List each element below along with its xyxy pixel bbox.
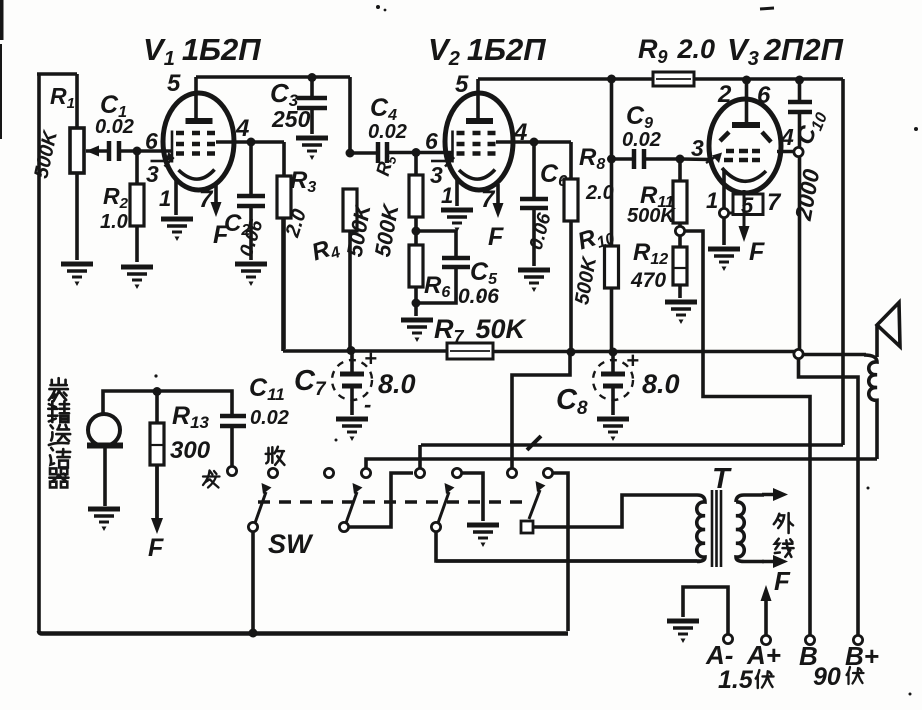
node R6 bottom — [412, 299, 421, 308]
svg-text:7: 7 — [481, 186, 496, 213]
node C8 bus — [609, 348, 618, 357]
switch SW pole1 — [248, 483, 271, 631]
contact transmit FA — [227, 466, 236, 475]
contact pole3 right — [452, 468, 461, 477]
wire V3 pin4 — [777, 150, 794, 154]
pin label 3 V1 — [146, 161, 159, 187]
ground under R1 — [61, 264, 93, 286]
svg-text:F: F — [749, 238, 765, 266]
svg-text:+: + — [364, 346, 377, 371]
wire coil to receive bus — [366, 459, 877, 469]
label T — [712, 463, 732, 495]
svg-text:0.02: 0.02 — [95, 116, 134, 138]
svg-text:300: 300 — [170, 437, 211, 464]
wire screen divider column — [610, 79, 614, 352]
tube V2 — [431, 79, 513, 190]
pin label 6 V1 — [145, 128, 158, 154]
contact V3 pin1 — [719, 208, 728, 217]
filament arrow A+ — [761, 585, 772, 636]
wire B+ top rail down — [841, 79, 845, 445]
label SW — [268, 529, 314, 559]
tube V3 — [706, 80, 781, 193]
node top R10 — [607, 75, 616, 84]
wire pole3 right to ground — [462, 473, 484, 521]
resistor R4 — [308, 189, 375, 350]
svg-text:F: F — [148, 534, 164, 562]
svg-text:250: 250 — [271, 106, 311, 132]
label external line — [774, 513, 794, 557]
ground V1 pin1 — [161, 219, 193, 241]
svg-text:8.0: 8.0 — [642, 369, 680, 399]
node R4 C7 — [347, 346, 356, 355]
contact pole2 right — [361, 468, 370, 477]
switch wiper tick on bus — [527, 436, 541, 450]
svg-text:1.0: 1.0 — [100, 211, 128, 233]
node R11 R12 contact — [675, 226, 684, 235]
node C4 input — [346, 149, 355, 158]
node C9 left — [607, 155, 616, 164]
svg-text:V11Б2П: V11Б2П — [143, 32, 261, 70]
tube V2 label — [428, 32, 546, 70]
node R8 bus — [567, 348, 576, 357]
wire V1 pin1 — [174, 180, 178, 215]
capacitor C3 — [270, 77, 327, 134]
pin label 5 V2 — [455, 71, 469, 98]
pin label 3 V2 — [430, 162, 443, 188]
svg-text:1: 1 — [706, 188, 718, 213]
resistor R13 — [150, 391, 211, 534]
wire V2 pin1 — [455, 179, 459, 206]
pin label 6 V3 — [757, 82, 771, 109]
bottom bus — [39, 631, 568, 634]
svg-text:0.02: 0.02 — [368, 121, 407, 143]
svg-text:6: 6 — [757, 82, 771, 109]
potentiometer R1 — [30, 74, 99, 631]
wire R9 to B+ rail — [694, 77, 843, 81]
svg-text:R750K: R750K — [434, 314, 528, 347]
node grid V2 — [412, 148, 421, 157]
wire bus to speaker coil — [803, 353, 866, 357]
pin label 6 V2 — [425, 128, 438, 154]
ground under C6 — [518, 270, 550, 292]
ground under C3 — [296, 138, 328, 160]
ground pole3 — [467, 525, 499, 547]
svg-text:2.0: 2.0 — [585, 182, 614, 204]
svg-text:5: 5 — [167, 70, 181, 97]
terminal A- — [705, 634, 733, 670]
pin label 4 V2 — [513, 119, 527, 146]
resistor R11 — [627, 159, 687, 227]
pin label 5 V1 — [167, 70, 181, 97]
switch pole3 — [431, 483, 700, 561]
ground under R2 — [121, 267, 153, 289]
label F V3 — [749, 238, 765, 266]
ground under C2 — [235, 264, 267, 286]
ground under microphone — [88, 509, 120, 531]
label carbon microphone — [48, 378, 70, 487]
svg-text:3: 3 — [691, 135, 704, 161]
contact pole2 left — [324, 468, 333, 477]
capacitor C6 — [520, 142, 567, 266]
contact pole3 left — [415, 468, 424, 477]
svg-text:F: F — [488, 223, 504, 251]
pin label 1 V3 — [706, 188, 718, 213]
node pole1 bottom bus — [249, 629, 258, 638]
contact V3 pin4 on C10 line — [794, 147, 803, 156]
pin label 1 V2 — [441, 183, 453, 208]
resistor R3 — [277, 142, 316, 349]
node V1 pin4 — [216, 138, 284, 147]
svg-text:T: T — [712, 463, 732, 495]
resistor R7 — [434, 314, 528, 359]
pin label 7 V1 — [199, 186, 214, 213]
resistor R9 — [653, 72, 694, 86]
contact receive pole1 — [268, 468, 277, 477]
ground V3 pin1 — [708, 249, 740, 271]
node V3 anode — [742, 76, 751, 85]
pin label 1 V1 — [159, 186, 171, 211]
resistor R6 — [409, 231, 450, 316]
wire pole4 right to bottom bus — [553, 473, 569, 631]
ground A- — [667, 621, 699, 643]
tube V1 — [151, 77, 235, 190]
svg-text:500K: 500K — [627, 205, 676, 227]
capacitor C8 electrolytic — [556, 348, 680, 419]
label 90V — [813, 663, 864, 691]
svg-text:+: + — [626, 348, 639, 373]
ground under R6 — [401, 320, 433, 342]
resistor R9 label — [638, 34, 715, 67]
capacitor C9 — [612, 102, 681, 169]
svg-text:6: 6 — [145, 128, 158, 154]
transformer T — [436, 488, 788, 568]
wire pin1 to ground — [722, 217, 726, 245]
capacitor C4 — [350, 94, 416, 163]
label F R13 — [148, 534, 164, 562]
wire A- terminal to ground — [683, 587, 728, 634]
label F A+ — [774, 566, 791, 596]
svg-text:V32П2П: V32П2П — [727, 32, 844, 70]
switch pole4 — [521, 481, 546, 533]
filament lead V2 pin7 — [493, 184, 504, 218]
svg-text:8.0: 8.0 — [378, 369, 416, 399]
wire R12 node to B terminal — [684, 231, 810, 636]
svg-text:1.5: 1.5 — [718, 666, 754, 694]
capacitor C7 electrolytic — [294, 346, 416, 417]
speaker horn — [877, 303, 900, 358]
svg-text:V21Б2П: V21Б2П — [428, 32, 546, 70]
wire plate supply bus — [283, 218, 795, 352]
capacitor C1 — [86, 91, 137, 161]
terminal B+ — [845, 635, 879, 671]
resistor R5 — [370, 152, 423, 259]
pin label 7 V2 — [481, 186, 496, 213]
resistor R10 — [571, 219, 618, 307]
svg-text:R92.0: R92.0 — [638, 34, 715, 67]
switch pole2 — [339, 473, 413, 532]
wire V2 pin4 — [496, 138, 571, 147]
label F V1 — [213, 221, 229, 249]
pin label 4 V1 — [235, 115, 249, 142]
ground V2 pin1 — [441, 210, 473, 232]
tube V3 label — [727, 32, 844, 70]
svg-text:3: 3 — [146, 161, 159, 187]
label SHOU receive — [266, 447, 285, 465]
switch dashed link — [258, 500, 530, 504]
capacitor C10 — [788, 80, 831, 350]
contact C10 bus junction — [794, 349, 803, 358]
speaker coil — [864, 355, 877, 459]
svg-text:7: 7 — [199, 186, 214, 213]
svg-text:0.06: 0.06 — [458, 285, 499, 308]
wire C9 to V3 pin3 — [680, 157, 711, 161]
svg-text:F: F — [774, 566, 791, 596]
tube V1 label — [143, 32, 261, 70]
svg-text:-: - — [364, 392, 371, 417]
label 1.5V — [718, 666, 774, 694]
wire C10 node to B+ terminal — [799, 358, 859, 636]
svg-text:90: 90 — [813, 663, 841, 691]
svg-text:SW: SW — [268, 529, 314, 559]
terminal A+ — [746, 635, 781, 670]
terminal B — [799, 635, 818, 671]
carbon microphone — [87, 391, 232, 506]
wire B+ rail to switch pole3 — [421, 443, 843, 447]
svg-text:470: 470 — [630, 269, 666, 292]
ground under R12 — [665, 302, 697, 324]
svg-text:1: 1 — [159, 186, 171, 211]
node R13 top — [153, 387, 162, 396]
svg-text:1: 1 — [441, 183, 453, 208]
ground under C8 — [597, 419, 629, 441]
label FA transmit — [203, 471, 220, 488]
wire V1 plate bus — [196, 77, 350, 153]
node C10 top — [795, 76, 804, 85]
node C9 right — [676, 155, 685, 164]
node C3 — [308, 73, 317, 82]
wire pole4 common to transformer — [533, 495, 697, 527]
wire pole4 left to supply bus — [512, 355, 570, 469]
filament arrow V3 — [739, 190, 750, 242]
ground under C7 — [336, 419, 368, 441]
svg-text:6: 6 — [425, 128, 438, 154]
resistor R8 — [564, 142, 614, 352]
resistor R12 — [630, 235, 687, 298]
contact pole4 right — [543, 468, 552, 477]
filament lead V1 pin7 — [211, 183, 222, 217]
wire pole3 left riser — [418, 445, 422, 469]
svg-text:4: 4 — [235, 115, 249, 142]
label F V2 — [488, 223, 504, 251]
pin label 3 V3 — [691, 135, 704, 161]
svg-text:0.02: 0.02 — [622, 129, 661, 151]
svg-text:7: 7 — [767, 189, 782, 216]
svg-text:5: 5 — [455, 71, 469, 98]
svg-text:0.02: 0.02 — [250, 407, 289, 429]
capacitor C2 — [224, 142, 268, 260]
capacitor C5 — [416, 231, 499, 308]
node R5 R6 — [412, 227, 421, 236]
pin label 4 V3 — [780, 124, 794, 150]
pin label 7 V3 — [767, 189, 782, 216]
wire V2 plate bus — [478, 77, 653, 81]
wire V3 pin1 — [722, 170, 726, 209]
pin label 2 V3 — [717, 81, 732, 108]
svg-text:2: 2 — [717, 81, 732, 108]
wire grid to V1 pin6 — [137, 149, 173, 153]
pin box 5 V3 — [728, 193, 763, 218]
resistor R2 — [100, 151, 144, 262]
contact pole4 left — [507, 468, 516, 477]
wire to V2 pin6 — [416, 151, 453, 155]
capacitor C11 — [220, 374, 289, 466]
node grid V1 — [133, 147, 142, 156]
